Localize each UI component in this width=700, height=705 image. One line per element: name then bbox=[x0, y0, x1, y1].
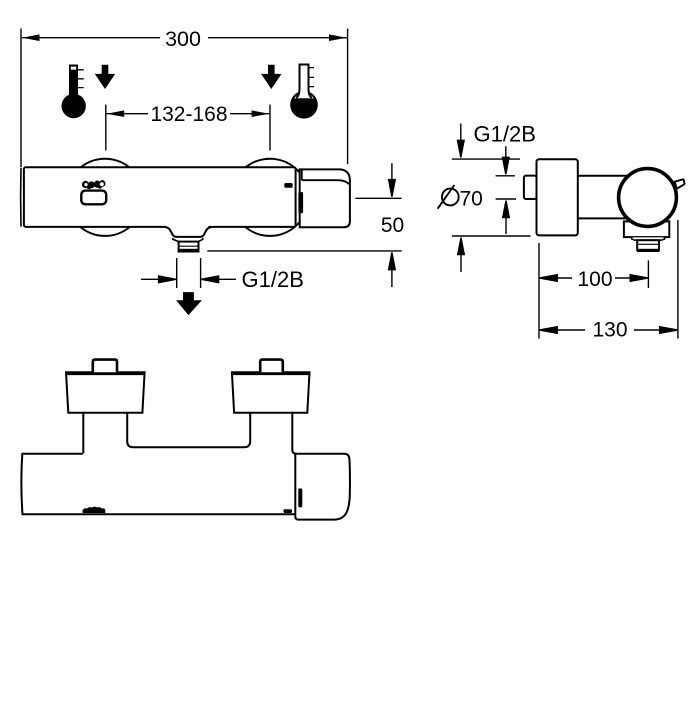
side dim arrow down at barrel top bbox=[503, 146, 510, 174]
svg-text:50: 50 bbox=[381, 214, 404, 237]
G1/2B right extension line bbox=[200, 258, 202, 288]
side barrel bottom line bbox=[578, 217, 628, 219]
side knob (G1/2B outlet side view) bbox=[524, 176, 537, 199]
dim 132-168 right extension line bbox=[269, 105, 271, 151]
outlet nipple bbox=[179, 242, 199, 252]
bottom view right nut bbox=[260, 360, 283, 373]
side outlet nipple dark bottom bbox=[637, 249, 660, 252]
side knob bottom reference line bbox=[496, 198, 516, 200]
bottom view mid tube edge bbox=[133, 446, 244, 448]
svg-text:132-168: 132-168 bbox=[150, 103, 227, 126]
bottom view left flange bbox=[66, 372, 145, 413]
dim 100 right extension line bbox=[647, 260, 649, 288]
dim 50 top reference line bbox=[355, 197, 401, 199]
body left end cap line bbox=[20, 168, 22, 227]
side handle bottom reference line bbox=[452, 235, 531, 237]
dim 300 right extension line bbox=[347, 29, 349, 165]
dim 130 line with arrows bbox=[540, 327, 678, 334]
bottom view left flange thick top bbox=[65, 372, 146, 375]
dim 132-168 right arrowhead bbox=[252, 110, 270, 117]
cold thermometer stem bbox=[296, 65, 311, 98]
bottom view handle grip bar bbox=[298, 488, 302, 507]
cold thermometer ticks bbox=[309, 68, 315, 87]
hot thermometer ticks bbox=[78, 70, 84, 88]
side dim arrow up at handle bottom bbox=[458, 238, 465, 272]
dim 132-168 left extension line bbox=[105, 105, 107, 151]
bottom view left nut bbox=[93, 360, 117, 373]
side outlet nipple thread line bbox=[637, 243, 659, 245]
bottom view body bar bbox=[21, 454, 295, 515]
bottom view right flange thick top bbox=[231, 372, 310, 375]
hot thermometer bulb bbox=[61, 94, 85, 118]
cold side flow arrow bbox=[261, 65, 281, 89]
dim 300 line left part bbox=[22, 37, 160, 39]
brand logo blob on body bbox=[82, 180, 106, 189]
hot side flow arrow bbox=[95, 65, 115, 89]
svg-text:100: 100 bbox=[577, 268, 612, 291]
side outlet flange bbox=[632, 237, 665, 240]
dim 100/130 left extension line bbox=[538, 243, 540, 339]
hot thermometer stem window bbox=[71, 67, 76, 70]
dim 50 bottom reference line bbox=[207, 250, 401, 252]
dim 130 right extension line bbox=[677, 220, 679, 339]
dim 300 left arrowhead bbox=[22, 34, 40, 41]
outlet nipple dark bottom bbox=[178, 249, 199, 252]
dim 132-168 left arrowhead bbox=[107, 110, 125, 117]
handle grip bar bbox=[298, 192, 303, 213]
side barrel top line bbox=[578, 175, 629, 177]
svg-text:70: 70 bbox=[460, 187, 483, 210]
G1/2B left extension line bbox=[176, 258, 178, 288]
side lower housing bbox=[624, 221, 669, 237]
outlet boss gap eraser bbox=[166, 226, 209, 229]
dim 50 lower arrow bbox=[389, 252, 396, 287]
bottom view left neck bbox=[83, 413, 133, 454]
G1/2B left dim line with arrow bbox=[141, 276, 176, 283]
escutcheon circle left bbox=[66, 159, 143, 236]
side dim arrow down at handle top bbox=[458, 124, 465, 158]
side body circle bbox=[619, 169, 677, 227]
bottom view right neck bbox=[244, 413, 297, 454]
svg-text:G1/2B: G1/2B bbox=[242, 267, 304, 292]
svg-text:G1/2B: G1/2B bbox=[474, 122, 536, 147]
side tab on circle bbox=[675, 179, 685, 189]
bottom view brand blob bbox=[83, 507, 106, 513]
label plate on body bbox=[81, 191, 106, 205]
outlet nipple thread band bbox=[179, 245, 199, 247]
handle step divider bbox=[301, 170, 303, 181]
dim 300 right arrowhead bbox=[329, 34, 347, 41]
svg-text:300: 300 bbox=[165, 27, 201, 51]
dim 50 upper arrow bbox=[389, 163, 396, 197]
handle front view: outer profile bbox=[300, 169, 350, 227]
hot thermometer stem bbox=[69, 65, 78, 98]
dim 132-168 line right part bbox=[230, 113, 269, 115]
G1/2B right dim line with arrow bbox=[201, 276, 236, 283]
escutcheon circle right bbox=[231, 159, 308, 236]
dim 300 left extension line bbox=[20, 29, 22, 168]
outlet boss under body bbox=[164, 227, 212, 237]
side handle bbox=[537, 159, 578, 235]
side barrel top reference line bbox=[496, 175, 515, 177]
tiny 38 mark near body right end bbox=[284, 183, 292, 188]
dim 132-168 line left part bbox=[107, 113, 149, 115]
side O70 diameter symbol bbox=[442, 189, 459, 206]
cold thermometer bulb fill bbox=[291, 98, 317, 117]
bottom view small mark bbox=[284, 509, 293, 513]
handle step line bbox=[302, 180, 349, 184]
dim 300 line right part bbox=[208, 37, 347, 39]
svg-text:130: 130 bbox=[592, 318, 627, 341]
flow direction arrow bottom bbox=[176, 292, 202, 315]
bottom view right flange bbox=[232, 372, 310, 413]
dim 100 line with arrows bbox=[540, 275, 648, 282]
bottom view handle bbox=[295, 454, 350, 520]
side dim arrow up at knob bottom bbox=[503, 201, 510, 234]
side handle top reference line bbox=[452, 158, 520, 160]
side outlet nipple bbox=[637, 240, 659, 250]
body rectangle bbox=[24, 167, 296, 227]
outlet nipple collar bbox=[173, 238, 203, 242]
cold thermometer bulb bbox=[291, 92, 317, 118]
